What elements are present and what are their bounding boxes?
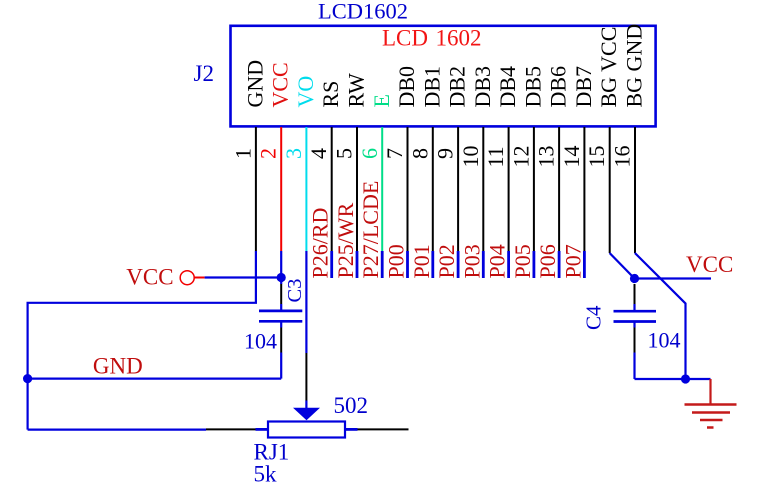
junction dot on left rail at GND (23, 374, 32, 383)
wire pin13 tail (blue) (558, 251, 561, 278)
wire pin2 to VCC node (blue) (280, 251, 282, 284)
capacitor C3 bottom pin stub (blue) (280, 321, 282, 327)
wire pin3 upper segment (305, 127, 307, 251)
wire pin7 tail (blue) (406, 251, 409, 278)
GND net wire (blue) (28, 378, 282, 380)
svg-text:P05: P05 (510, 244, 535, 278)
RJ1 left pin stub (blue) (256, 428, 269, 431)
svg-text:3: 3 (281, 148, 306, 159)
capacitor C3 top pin (black) (280, 284, 282, 304)
wire pin6 tail (blue) (381, 251, 384, 278)
RJ1 wiper arrow (293, 408, 320, 421)
svg-text:15: 15 (584, 146, 609, 168)
wire pin8 upper segment (432, 127, 434, 251)
wire pin3 (blue segment) (305, 251, 307, 353)
capacitor C4 bottom wire (blue) (633, 353, 635, 380)
wire pin14 tail (blue) (583, 251, 586, 278)
svg-text:5: 5 (332, 148, 357, 159)
svg-text:P00: P00 (384, 244, 409, 278)
ground symbol bar 3 (700, 419, 723, 422)
capacitor C3 bottom wire (blue) (280, 353, 282, 379)
wire pin15 upper segment (609, 127, 611, 253)
RJ1 right pin stub (blue) (345, 428, 358, 431)
svg-text:104: 104 (648, 328, 681, 353)
svg-text:5k: 5k (254, 462, 278, 487)
wire pin11 tail (blue) (507, 251, 510, 278)
svg-text:104: 104 (244, 329, 277, 354)
svg-text:P06: P06 (535, 244, 560, 278)
svg-text:E: E (369, 94, 394, 107)
svg-text:6: 6 (357, 148, 382, 159)
capacitor C4 top pin stub (blue) (633, 304, 635, 311)
svg-text:DB7: DB7 (571, 66, 596, 108)
svg-text:9: 9 (433, 148, 458, 159)
capacitor C3 bottom plate (259, 320, 302, 323)
svg-text:RS: RS (318, 81, 343, 108)
capacitor C3 top plate (259, 310, 302, 313)
svg-text:P02: P02 (434, 244, 459, 278)
svg-text:GND: GND (242, 60, 267, 108)
svg-text:C3: C3 (284, 279, 306, 303)
wire pin16 upper segment (634, 127, 636, 253)
wire pin11 upper segment (508, 127, 510, 251)
svg-text:11: 11 (483, 146, 508, 167)
capacitor C4 top plate (614, 310, 657, 313)
svg-text:P03: P03 (459, 244, 484, 278)
wire pin6 upper segment (381, 127, 383, 251)
svg-text:BG GND: BG GND (622, 24, 647, 108)
svg-text:P01: P01 (409, 244, 434, 278)
wire pin2 upper segment (280, 127, 282, 251)
capacitor C4 bottom pin (black) (634, 328, 636, 353)
RJ1 right pin (black) (358, 428, 409, 430)
RJ1 left pin (black) (206, 428, 256, 430)
wire pin5 tail (blue) (356, 251, 359, 278)
svg-text:DB5: DB5 (520, 66, 545, 108)
svg-text:DB1: DB1 (419, 66, 444, 108)
svg-text:2: 2 (256, 148, 281, 159)
wire pin14 upper segment (583, 127, 585, 251)
capacitor C3 top pin stub (blue) (280, 304, 282, 311)
svg-text:DB4: DB4 (495, 66, 520, 108)
svg-text:502: 502 (334, 393, 369, 418)
svg-text:VCC: VCC (126, 265, 173, 290)
ground symbol bar 1 (685, 403, 737, 406)
wire pin13 upper segment (558, 127, 560, 251)
svg-text:14: 14 (559, 146, 584, 168)
svg-text:P26/RD: P26/RD (308, 208, 333, 279)
bottom wire to RJ1 (blue) (28, 429, 206, 431)
svg-text:J2: J2 (194, 61, 214, 86)
svg-text:P04: P04 (485, 244, 510, 278)
svg-text:P25/WR: P25/WR (333, 202, 358, 278)
wire pin15 diagonal to VCC node (blue) (610, 253, 635, 279)
wire pin7 upper segment (407, 127, 409, 251)
RJ1 wiper stub (blue) (305, 401, 307, 409)
wire pin1 to left rail (blue) (28, 251, 256, 430)
potentiometer RJ1 body (268, 422, 345, 438)
wire pin10 tail (blue) (482, 251, 485, 278)
svg-text:10: 10 (458, 146, 483, 168)
svg-text:13: 13 (534, 146, 559, 168)
svg-text:DB6: DB6 (546, 66, 571, 108)
VCC wire to pin2 node (blue) (205, 276, 282, 278)
svg-text:7: 7 (382, 148, 407, 159)
capacitor C4 bottom plate (614, 320, 657, 323)
svg-text:VCC: VCC (686, 252, 733, 277)
svg-text:BG VCC: BG VCC (596, 27, 621, 108)
svg-text:DB0: DB0 (394, 66, 419, 108)
capacitor C4 top pin (black) (634, 284, 636, 304)
wire pin12 upper segment (533, 127, 535, 251)
wire pin3 RJ1 wiper pin (black) (305, 353, 307, 401)
wire pin4 tail (blue) (330, 251, 333, 278)
VCC terminal stub (red) (194, 277, 204, 279)
svg-text:P07: P07 (560, 244, 585, 278)
svg-text:DB3: DB3 (470, 66, 495, 108)
svg-text:C4: C4 (582, 305, 606, 330)
wire pin8 tail (blue) (431, 251, 434, 278)
svg-text:8: 8 (407, 148, 432, 159)
ground symbol bar 4 (707, 426, 714, 429)
svg-text:1602: 1602 (436, 26, 482, 51)
wire pin5 upper segment (356, 127, 358, 251)
svg-text:12: 12 (508, 146, 533, 168)
VCC right wire (blue) (635, 277, 712, 279)
capacitor C3 bottom pin (black) (280, 328, 282, 353)
svg-text:DB2: DB2 (445, 66, 470, 108)
wire pin4 upper segment (331, 127, 333, 251)
svg-text:LCD: LCD (382, 26, 428, 51)
capacitor C4 bottom pin stub (blue) (633, 322, 635, 328)
junction dot pin16 at bottom wire (681, 374, 690, 383)
svg-text:VCC: VCC (268, 62, 293, 107)
svg-text:4: 4 (306, 148, 331, 159)
svg-text:P27/LCDE: P27/LCDE (358, 181, 383, 279)
svg-text:1: 1 (230, 148, 255, 159)
bottom right wire to ground (blue) (635, 378, 711, 380)
wire pin16 diagonal and down (blue) (635, 253, 686, 379)
svg-text:GND: GND (93, 354, 143, 379)
connector J2 LCD1602 body (231, 26, 656, 127)
wire pin9 tail (blue) (457, 251, 460, 278)
svg-text:LCD1602: LCD1602 (318, 0, 408, 24)
svg-text:RW: RW (344, 73, 369, 107)
junction dot VCC right node (630, 274, 639, 283)
junction dot VCC node at pin2 (277, 273, 286, 282)
wire pin9 upper segment (457, 127, 459, 251)
VCC open terminal circle (180, 271, 194, 285)
ground symbol stem (red) (709, 379, 711, 405)
wire pin10 upper segment (482, 127, 484, 251)
wire pin1 upper segment (255, 127, 257, 251)
wire pin12 tail (blue) (533, 251, 536, 278)
svg-text:16: 16 (610, 146, 635, 168)
svg-text:VO: VO (293, 76, 318, 108)
ground symbol bar 2 (692, 411, 730, 414)
